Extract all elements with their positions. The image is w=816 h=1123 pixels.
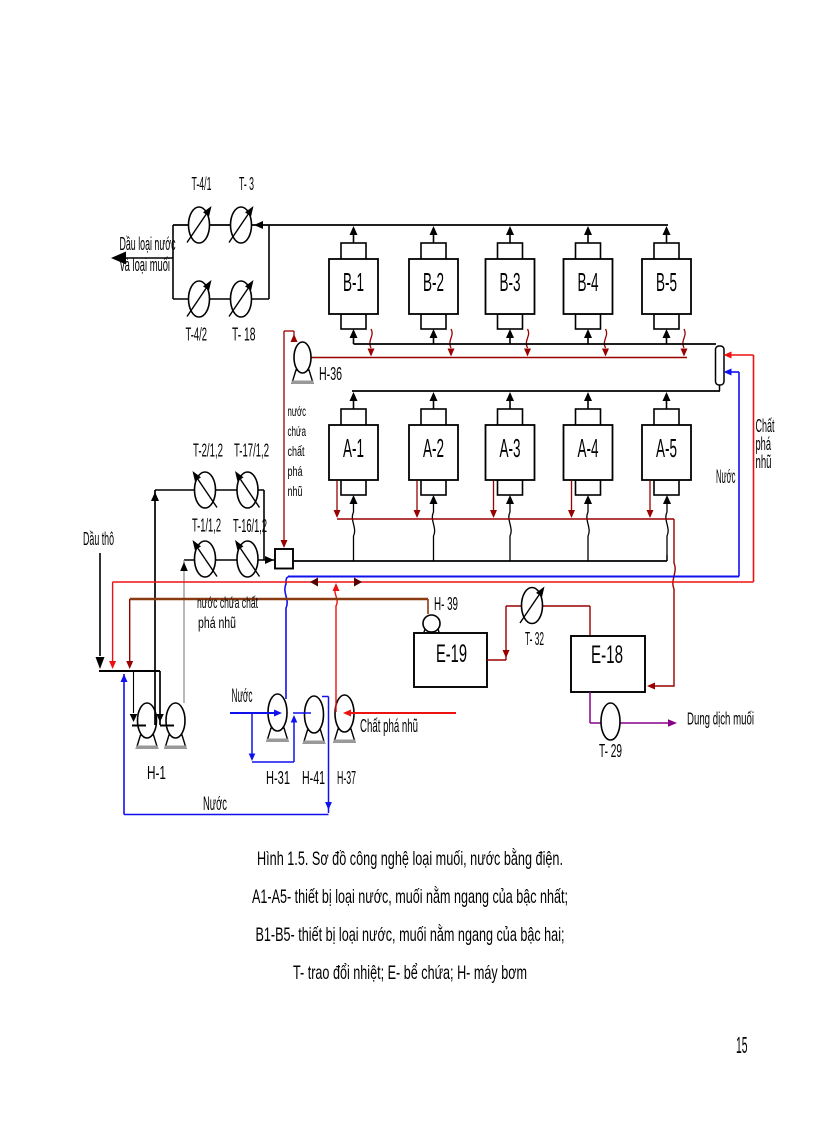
wire B-1 water drain (dark red) [368,329,375,357]
wire lower pass T-4/2 T-18 line [173,298,269,300]
label T- 29 [599,741,622,761]
svg-text:A-5: A-5 [656,433,677,463]
svg-text:T- 3: T- 3 [239,174,254,194]
wire A-1 bottom feed riser [350,495,358,561]
label Dau loai nuoc va loai muoi [120,234,176,275]
label Dung dich muoi [687,709,754,729]
wire right H-1 discharge to T-1 pass (gray) [180,560,188,703]
wire crude preheat lower pass T-1 T-16 [184,556,275,564]
wire B-5 water drain (dark red) [681,329,688,357]
svg-text:Dung dịch muối: Dung dịch muối [687,709,754,729]
label nuoc chua chat pha nhu (header) [197,595,258,632]
label Nuoc (H-31 feed) [232,686,253,707]
label T- 18 [232,325,256,345]
wire water feed to pump H-31 (blue) [230,710,282,717]
svg-text:phá nhũ: phá nhũ [198,615,236,632]
manifold mixing header [716,346,725,391]
svg-text:H-1: H-1 [147,763,166,783]
svg-text:H-37: H-37 [337,768,356,788]
svg-text:nước chứa chất: nước chứa chất [197,595,258,612]
svg-text:T-1/1,2: T-1/1,2 [192,516,221,536]
svg-text:T- trao đổi nhiệt; E- bể chứa;: T- trao đổi nhiệt; E- bể chứa; H- máy bơ… [293,962,527,984]
wire recycled water header (brown) [130,599,428,614]
label H-36 [319,364,342,384]
wire connecting vertical T-17 to T-16 outlet [263,490,265,560]
vessel B-2 [409,243,458,329]
vessel B-1 [329,243,378,329]
vessel A-5 [642,409,691,495]
wire B-4 bottom feed riser [584,329,592,344]
svg-text:A-1: A-1 [343,433,364,463]
svg-text:H-41: H-41 [302,768,325,788]
label T-4/1 [192,174,212,194]
svg-text:A1-A5- thiết bị loại nước, muố: A1-A5- thiết bị loại nước, muối nằm ngan… [252,885,568,908]
heat exchanger T-2/1,2 [193,471,218,508]
label Dau tho [83,529,114,549]
svg-text:Nước: Nước [203,794,227,815]
heat exchanger T-4/1 [187,206,212,243]
svg-text:B1-B5- thiết bị loại nước, muố: B1-B5- thiết bị loại nước, muối nằm ngan… [256,923,565,946]
heat exchanger T-4/2 [187,280,212,317]
svg-text:Chất phá nhũ: Chất phá nhũ [360,716,418,736]
label H-41 [302,768,325,788]
wire wash water header (blue) [288,576,739,578]
vessel A-3 [486,409,535,495]
wire B-row bottom feed header [354,343,717,345]
caption line 3 [256,923,565,946]
wire A-2 water drain (dark red) [414,481,421,518]
label H-1 [147,763,166,783]
wire water branch to pump H-41 (blue) [249,713,311,762]
svg-text:B-3: B-3 [500,267,521,297]
vessel A-1 [329,409,378,495]
wire B-2 water drain (dark red) [448,329,455,357]
svg-text:T-17/1,2: T-17/1,2 [234,441,269,461]
wire A-5 bottom feed riser [663,495,671,561]
wire crude oil inlet (Dau tho) [96,553,105,669]
svg-text:Nước: Nước [716,467,736,488]
svg-text:T- 18: T- 18 [232,325,256,345]
heat exchanger T-32 [520,587,545,624]
label H-31 [266,768,290,788]
wire A-row bottom feed header [293,555,667,561]
wire B-5 overhead riser [663,226,671,243]
wire B-3 bottom feed riser [506,329,514,344]
svg-text:H- 39: H- 39 [434,594,458,614]
svg-text:phá: phá [756,434,772,454]
svg-text:Dầu thô: Dầu thô [83,529,114,549]
label Nuoc (right) [716,467,736,488]
wire H-31 discharge to wash header (blue) [285,577,290,700]
svg-text:Nước: Nước [232,686,253,707]
vessel A-2 [409,409,458,495]
heat exchanger T-16/1,2 [235,540,260,577]
svg-text:nhũ: nhũ [756,452,772,472]
caption line 4 [293,962,527,984]
svg-text:B-1: B-1 [343,267,364,297]
wire left H-1 pump suction [130,671,146,726]
wire A-row drain header (dark red) [337,518,674,520]
label nuoc chua chat pha nhu (vertical stack) [288,404,307,499]
label T-4/2 [186,325,208,345]
svg-text:nhũ: nhũ [288,484,303,499]
svg-text:T-2/1,2: T-2/1,2 [193,441,223,461]
heat exchanger T-29 [601,703,620,740]
wire H-36 recycle: up-over-down to mixing box (dark red) [281,331,298,548]
wire right vertical of T-4 block [268,225,270,299]
svg-text:T- 32: T- 32 [525,629,544,649]
mixing box node [275,549,293,569]
vessel B-5 [642,243,691,329]
wire B-1 bottom feed riser [350,329,358,344]
wire wash water injection to manifold (blue) [724,369,740,577]
label T-17/1,2 [234,441,269,461]
svg-text:H-36: H-36 [319,364,342,384]
pump H-41 [303,696,325,744]
vessel B-4 [564,243,613,329]
wire demulsifier drop to crude (red) [109,582,116,669]
wire A-5 overhead riser [663,392,671,409]
svg-text:B-5: B-5 [656,267,677,297]
wire A-2 overhead riser [430,392,438,409]
vessel A-4 [564,409,613,495]
svg-text:T-4/2: T-4/2 [186,325,208,345]
wire A-3 bottom feed riser [506,495,514,561]
wire A-4 bottom feed riser [584,495,592,561]
wire crude preheat upper pass T-2 T-17 [151,490,264,501]
wire A-4 water drain (dark red) [568,481,575,518]
svg-text:T- 29: T- 29 [599,741,622,761]
wire H-41 discharge water return loop (blue) [124,697,332,815]
caption line 2 [252,885,568,908]
label T- 3 [239,174,254,194]
pump H-31 [267,694,289,742]
wire H-37 discharge riser (red) [333,583,340,712]
wire treated-oil outlet [111,252,173,265]
svg-text:Chất: Chất [756,416,775,436]
wire A-5 water drain (dark red) [647,481,654,518]
svg-text:và loại muối: và loại muối [120,255,170,275]
vessel B-3 [486,243,535,329]
label T-1/1,2 [192,516,221,536]
pump H-39 [421,615,443,643]
wire demulsifier header (red) [113,578,754,587]
svg-text:B-4: B-4 [578,267,599,297]
wire B-4 water drain (dark red) [602,329,609,357]
svg-text:A-2: A-2 [423,433,444,463]
heat exchanger T-18 [229,280,254,317]
wire B-4 overhead riser [584,226,592,243]
wire left vertical of T-4 block [172,225,174,299]
wire B-3 overhead riser [506,226,514,243]
svg-text:chứa: chứa [288,424,307,439]
wire B-2 bottom feed riser [430,329,438,344]
pump H-36 [292,342,314,384]
wire wash water return riser (blue) [121,674,128,815]
wire A-row overhead header [352,390,720,392]
svg-text:E-18: E-18 [591,641,623,669]
page number 15 [736,1032,748,1058]
tank E-18 [571,636,645,692]
label T- 32 [525,629,544,649]
wire demulsifier feed to H-37 (red) [343,710,456,717]
svg-text:H-31: H-31 [266,768,290,788]
label H- 39 [434,594,458,614]
wire A-4 overhead riser [584,392,592,409]
svg-text:E-19: E-19 [436,640,467,668]
caption line 1 [257,847,563,870]
tank E-19 [414,633,487,687]
heat exchanger T-1/1,2 [193,540,218,577]
wire A-3 water drain (dark red) [490,481,497,518]
label T-16/1,2 [233,516,267,536]
pump H-1 left [136,703,158,749]
wire left H-1 discharge to T-2 pass [154,490,156,725]
wire A-1 overhead riser [350,392,358,409]
wire E-18 to T-32 to E-19 (dark red) [487,606,590,660]
svg-text:phá: phá [288,464,303,479]
wire interstage water line (dark red) through pump H-36 [303,357,687,359]
wire B-5 bottom feed riser [663,329,671,344]
label Chat pha nhu (right) [756,416,775,472]
pump H-37 [334,695,356,743]
wire B-3 water drain (dark red) [524,329,531,357]
label T-2/1,2 [193,441,223,461]
wire recycled water drop to crude (dark red) [126,599,133,669]
svg-text:15: 15 [736,1032,748,1058]
heat exchanger T-17/1,2 [235,471,260,508]
wire demulsifier injection to manifold (red) [724,352,754,583]
wire B-1 overhead riser [350,226,358,243]
svg-text:chất: chất [288,444,305,459]
wire A-2 bottom feed riser [430,495,438,561]
wire B-overhead line to T-3/T-4 block [173,221,668,229]
label Chat pha nhu (H-37) [360,716,418,736]
wire A-1 water drain (dark red) [334,481,341,518]
wire drain header to E-18 (dark red) [647,519,675,690]
wire B-2 overhead riser [430,226,438,243]
svg-text:Dầu loại nước: Dầu loại nước [120,234,176,254]
svg-text:T-16/1,2: T-16/1,2 [233,516,267,536]
svg-text:T-4/1: T-4/1 [192,174,212,194]
wire A-3 overhead riser [506,392,514,409]
wire crude suction manifold [99,671,174,726]
label H-37 [337,768,356,788]
svg-text:nước: nước [288,404,307,419]
heat exchanger T-3 [229,206,254,243]
svg-text:A-3: A-3 [500,433,521,463]
svg-text:A-4: A-4 [578,433,599,463]
label Nuoc (bottom return) [203,794,227,815]
pump H-1 right [165,703,187,749]
svg-text:B-2: B-2 [423,267,444,297]
wire brine out of E-18 (purple) [590,692,677,727]
svg-text:Hình 1.5. Sơ đồ công nghệ loại: Hình 1.5. Sơ đồ công nghệ loại muối, nướ… [257,847,563,870]
